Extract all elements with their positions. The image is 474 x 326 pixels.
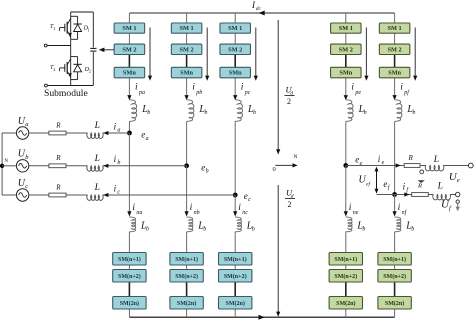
svg-text:SM(n+2): SM(n+2) [175,273,198,280]
svg-text:N: N [4,159,8,164]
svg-text:SM 2: SM 2 [388,46,402,53]
svg-text:L: L [94,154,100,164]
svg-text:L: L [94,183,100,193]
svg-text:i: i [349,203,352,213]
svg-text:L: L [433,155,439,165]
svg-text:R: R [55,154,61,162]
svg-text:pc: pc [244,90,251,96]
svg-text:L: L [94,121,100,131]
svg-text:SM(n+2): SM(n+2) [224,273,247,280]
svg-text:SM 1: SM 1 [180,25,194,32]
svg-text:b: b [412,110,415,116]
svg-text:c: c [25,183,28,190]
svg-text:1: 1 [53,26,55,31]
svg-text:R: R [408,154,414,162]
svg-text:SMn: SMn [388,70,401,77]
svg-text:pa: pa [138,90,145,96]
svg-text:2: 2 [53,67,55,72]
svg-text:nb: nb [194,210,200,216]
svg-text:e: e [457,177,460,184]
svg-text:SM(n+1): SM(n+1) [118,256,141,263]
svg-text:SM 1: SM 1 [122,25,136,32]
svg-text:0: 0 [273,166,276,173]
svg-text:SM(n+2): SM(n+2) [383,273,406,280]
svg-text:Submodule: Submodule [44,88,88,99]
svg-text:N: N [294,154,298,160]
svg-text:SM(n+1): SM(n+1) [383,256,406,263]
svg-text:SM 2: SM 2 [228,46,242,53]
svg-text:SMn: SMn [123,70,136,77]
svg-text:e: e [382,160,385,166]
svg-text:SM(2n): SM(2n) [226,300,245,307]
svg-text:2: 2 [89,69,91,74]
svg-text:i: i [351,82,354,92]
svg-text:R: R [417,183,422,190]
svg-text:b: b [146,227,149,233]
svg-text:b: b [204,110,207,116]
svg-text:b: b [411,227,414,233]
svg-text:na: na [136,210,142,216]
svg-text:SM(n+1): SM(n+1) [334,256,357,263]
svg-text:SMn: SMn [339,70,352,77]
svg-text:SM 2: SM 2 [180,46,194,53]
svg-text:SM(n+1): SM(n+1) [175,256,198,263]
svg-text:a: a [117,127,120,133]
svg-text:a: a [146,136,149,142]
svg-text:nc: nc [242,210,248,216]
svg-text:SM 2: SM 2 [122,46,136,53]
svg-text:b: b [364,110,367,116]
svg-text:c: c [117,189,120,195]
svg-text:i: i [398,203,401,213]
svg-text:b: b [206,169,209,175]
svg-text:b: b [362,227,365,233]
svg-text:1: 1 [88,27,90,32]
svg-text:b: b [117,160,120,166]
svg-text:R: R [55,121,61,129]
svg-text:e: e [360,161,363,167]
svg-text:i: i [400,82,403,92]
svg-text:SMn: SMn [229,70,242,77]
svg-text:SM 1: SM 1 [228,25,242,32]
svg-text:SM(2n): SM(2n) [120,300,139,307]
svg-text:R: R [55,183,61,191]
svg-text:b: b [253,110,256,116]
svg-text:b: b [203,227,206,233]
svg-text:pe: pe [354,90,361,96]
svg-text:2: 2 [287,97,291,106]
svg-text:ne: ne [353,210,359,216]
svg-text:b: b [252,227,255,233]
svg-text:i: i [135,82,138,92]
svg-text:b: b [147,110,150,116]
svg-text:SM(2n): SM(2n) [177,300,196,307]
svg-text:dc: dc [256,6,262,12]
svg-text:i: i [241,82,244,92]
svg-text:i: i [238,203,241,213]
svg-text:i: i [190,203,193,213]
svg-text:L: L [437,181,443,191]
svg-text:a: a [25,121,28,128]
svg-text:SMn: SMn [180,70,193,77]
svg-text:2: 2 [288,200,292,209]
svg-text:i: i [192,82,195,92]
svg-text:SM(n+1): SM(n+1) [224,256,247,263]
svg-text:c: c [248,197,251,203]
svg-text:SM(2n): SM(2n) [336,300,355,307]
svg-text:SM(n+2): SM(n+2) [334,273,357,280]
svg-text:SM(n+2): SM(n+2) [118,273,141,280]
svg-text:SM 2: SM 2 [339,46,353,53]
svg-text:SM(2n): SM(2n) [385,300,404,307]
svg-text:SM 1: SM 1 [388,25,402,32]
svg-text:pb: pb [195,90,202,96]
svg-text:i: i [132,203,135,213]
svg-text:SM 1: SM 1 [339,25,353,32]
